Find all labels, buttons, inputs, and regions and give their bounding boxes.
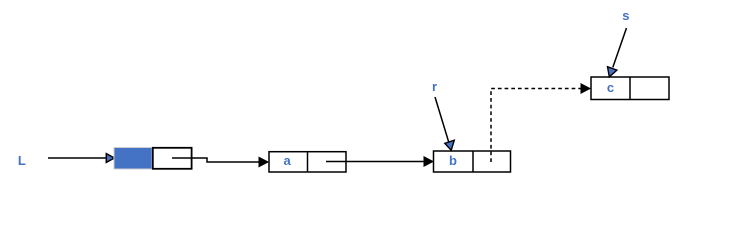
wire node a to node b: [326, 161, 425, 163]
head node next cell: [153, 148, 192, 169]
svg-text:c: c: [607, 80, 614, 95]
pointer s arrow shaft: [613, 28, 627, 67]
filled arrowhead at node b: [424, 157, 433, 166]
svg-text:b: b: [449, 153, 457, 168]
svg-text:L: L: [18, 153, 26, 168]
filled arrowhead at node a: [259, 157, 268, 166]
wire L to head node: [48, 157, 106, 159]
svg-text:r: r: [432, 79, 437, 94]
node a divider: [307, 152, 309, 172]
node c divider: [629, 77, 631, 100]
svg-text:a: a: [284, 153, 292, 168]
wire head node to node a: [172, 158, 260, 162]
svg-text:s: s: [622, 8, 629, 23]
node c box: [591, 77, 669, 100]
pointer r arrowhead: [445, 140, 455, 150]
head node data cell: [114, 148, 152, 170]
blue arrowhead at head node: [106, 154, 114, 163]
node b divider: [472, 151, 474, 172]
dashed wire node b to node c: [491, 89, 581, 163]
node b box: [434, 151, 511, 172]
filled arrowhead at node c: [581, 84, 590, 93]
pointer s arrowhead: [608, 67, 617, 77]
node a box: [269, 152, 346, 172]
pointer r arrow shaft: [435, 97, 449, 142]
